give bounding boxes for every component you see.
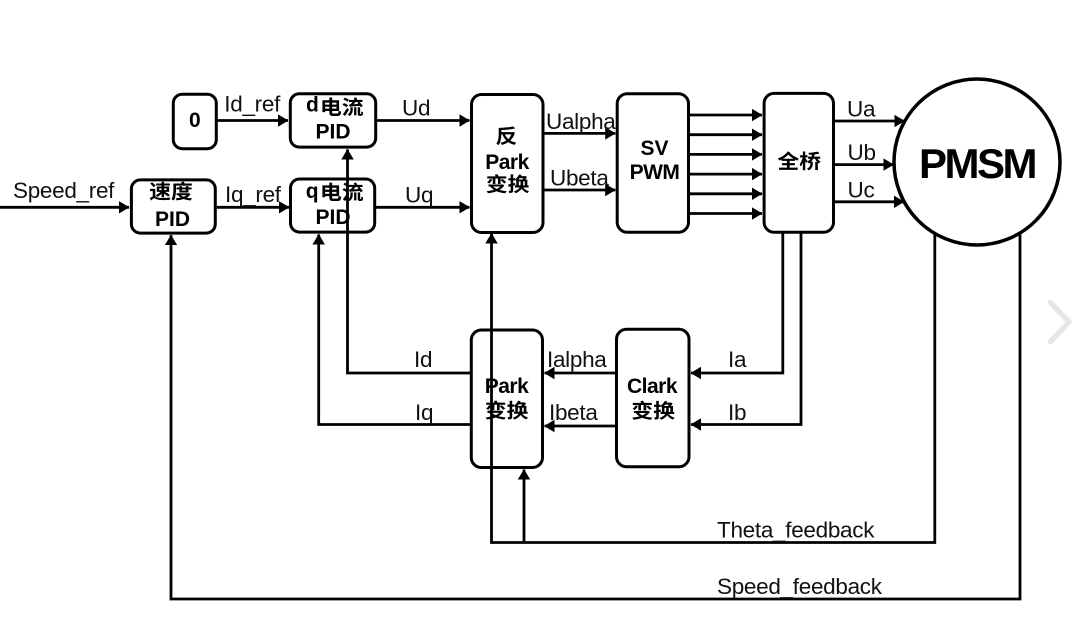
- svg-text:Theta_feedback: Theta_feedback: [717, 518, 875, 543]
- wire SVPWM to full-bridge PWM signal 5: [690, 192, 762, 195]
- svg-text:Ualpha: Ualpha: [546, 109, 616, 134]
- wire Clark to Park (Ibeta): [545, 425, 616, 428]
- svg-text:Id: Id: [414, 347, 432, 372]
- wire SVPWM to full-bridge PWM signal 6: [690, 212, 762, 215]
- svg-text:Uq: Uq: [405, 183, 433, 208]
- svg-text:Park: Park: [485, 151, 529, 174]
- wire Theta_feedback branch arrow into Park bottom: [523, 470, 526, 543]
- wire full-bridge to PMSM (Uc): [835, 200, 904, 203]
- block inverse Park transform: [472, 95, 544, 233]
- svg-text:d: d: [306, 94, 319, 117]
- wire SVPWM to full-bridge PWM signal 1: [690, 114, 762, 117]
- block Clark transform: [617, 329, 690, 467]
- svg-text:Ialpha: Ialpha: [547, 347, 607, 372]
- svg-text:Ib: Ib: [728, 400, 746, 425]
- wire Theta_feedback vertical to inverse Park (passes through Park box): [490, 233, 493, 471]
- svg-text:Uc: Uc: [848, 178, 875, 203]
- svg-text:PMSM: PMSM: [919, 140, 1036, 187]
- wire Clark to Park (Ialpha): [545, 372, 616, 375]
- wire Park Iq output back to q-current PID: [319, 234, 470, 424]
- wire full-bridge to PMSM (Ub): [835, 163, 894, 166]
- svg-text:Iq: Iq: [415, 400, 433, 425]
- block 0 (zero d-axis current reference): [173, 94, 216, 149]
- wire q-current PID to inverse Park (Uq): [376, 206, 470, 209]
- svg-text:Ua: Ua: [847, 97, 876, 122]
- svg-text:PWM: PWM: [630, 161, 680, 184]
- svg-text:Clark: Clark: [627, 375, 678, 398]
- svg-text:Ubeta: Ubeta: [550, 166, 609, 191]
- wire SVPWM to full-bridge PWM signal 4: [690, 173, 762, 176]
- wire Theta_feedback horizontal from PMSM: [492, 232, 935, 543]
- block SVPWM: [617, 94, 688, 233]
- svg-text:PID: PID: [315, 206, 350, 229]
- svg-text:Speed_ref: Speed_ref: [13, 178, 115, 203]
- wire Park Id output back to d-current PID (passes through q-current PID box): [348, 149, 471, 373]
- svg-text:Ibeta: Ibeta: [549, 400, 598, 425]
- wire speed PID to q-current PID (Iq_ref): [217, 206, 289, 209]
- svg-text:Speed_feedback: Speed_feedback: [717, 574, 883, 599]
- block d-current PID: [290, 94, 375, 147]
- svg-text:Iq_ref: Iq_ref: [225, 182, 282, 207]
- wire Ia sense: full-bridge bottom to Clark input: [691, 233, 783, 373]
- svg-text:Ud: Ud: [402, 96, 430, 121]
- wire inverse Park to SVPWM (Ubeta): [545, 189, 616, 192]
- svg-text:Ia: Ia: [728, 347, 747, 372]
- svg-text:PID: PID: [315, 121, 350, 144]
- wire d-current PID to inverse Park (Ud): [377, 119, 470, 122]
- wire 0 to d-current PID (Id_ref): [217, 119, 288, 122]
- svg-text:SV: SV: [640, 137, 668, 160]
- wire Speed_ref input: [0, 206, 129, 209]
- wire inverse Park to SVPWM (Ualpha): [545, 132, 616, 135]
- wire Speed_feedback: PMSM to speed PID: [171, 232, 1020, 599]
- svg-text:PID: PID: [155, 208, 190, 231]
- block q-current PID: [291, 179, 375, 232]
- wire full-bridge to PMSM (Ua): [835, 120, 905, 123]
- next-slide chevron: [1051, 303, 1070, 342]
- wire SVPWM to full-bridge PWM signal 3: [690, 153, 762, 156]
- wire Ib sense: full-bridge bottom to Clark input: [691, 233, 801, 425]
- svg-text:Id_ref: Id_ref: [224, 92, 281, 117]
- block full bridge: [764, 93, 833, 232]
- svg-text:0: 0: [189, 109, 201, 132]
- wire SVPWM to full-bridge PWM signal 2: [690, 133, 762, 136]
- svg-text:q: q: [306, 180, 319, 203]
- svg-text:Ub: Ub: [848, 140, 876, 165]
- block speed PID: [131, 180, 215, 233]
- PMSM motor: [894, 79, 1060, 245]
- block Park transform: [471, 330, 542, 468]
